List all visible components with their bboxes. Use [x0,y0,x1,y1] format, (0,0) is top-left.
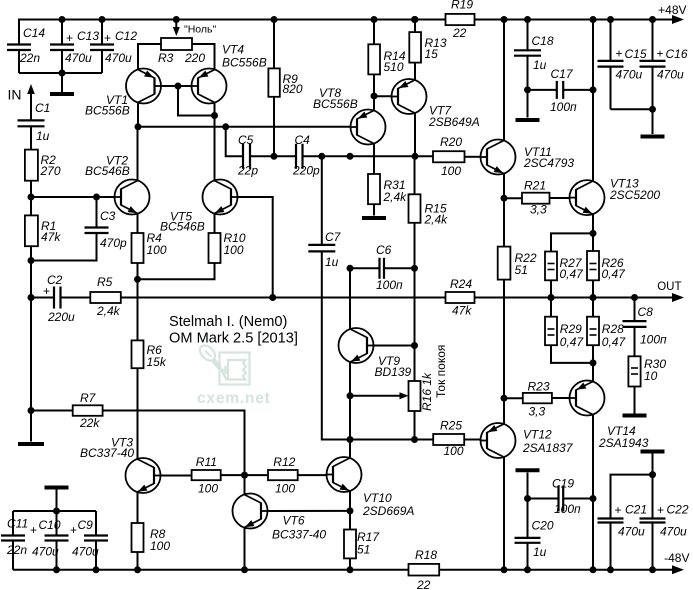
transistor VT2 [115,180,150,215]
+48V terminal arrow [672,15,684,24]
resistor R30 [628,356,640,386]
junction VT9 base [411,342,418,349]
resistor R31 [368,174,380,204]
svg-text:R29: R29 [560,322,582,336]
resistor R28 [592,298,594,317]
svg-text:R19: R19 [451,0,473,12]
capacitor C22 [652,475,654,519]
svg-text:C6: C6 [376,243,392,257]
svg-text:0,47: 0,47 [602,267,627,281]
capacitor C4 [295,144,297,169]
svg-text:470u: 470u [660,525,687,539]
svg-text:100п: 100п [550,100,577,114]
svg-text:C3: C3 [100,209,116,223]
svg-text:1u: 1u [533,545,547,559]
svg-text:C19: C19 [552,477,574,491]
ground bottom bank [56,489,58,511]
svg-text:-48V: -48V [664,551,689,565]
junction VT1-VT2 collectors [135,123,142,130]
resistor R27 [545,252,557,281]
transistor VT7 [392,79,427,114]
resistor R29 [550,298,552,317]
svg-text:C7: C7 [325,230,342,244]
svg-text:C11: C11 [7,517,28,531]
wire R26 bottom to OUT [592,280,594,297]
svg-text:C2: C2 [47,273,63,287]
wire VT10 collector [349,440,351,458]
resistor R13 [412,16,419,23]
wire VT3 emitter to R8 [137,493,139,524]
junction VT12 emitter node [501,395,508,402]
wire VT8 emitter up [373,96,375,111]
svg-text:BC556B: BC556B [222,56,267,70]
junction R27 bottom [548,294,555,301]
junction C7 top [318,153,325,160]
junction VT4 collector [211,112,218,119]
svg-text:+: + [104,31,111,45]
svg-text:R20: R20 [440,135,462,149]
resistor R5 [61,297,91,299]
junction node A [28,194,35,201]
wire R21 to VT13 base [550,197,570,199]
svg-text:R5: R5 [97,275,113,289]
wire C18 bottom [527,56,529,90]
capacitor C11 [12,511,14,536]
capacitor C14 [18,20,20,45]
wire VT6 emitter to rail [244,528,246,570]
wire VT13 collector to rail [592,20,594,181]
svg-text:100: 100 [147,243,167,257]
svg-text:+: + [657,503,664,517]
svg-text:470p: 470p [100,236,127,250]
transistor VT9 [339,328,374,363]
svg-text:470u: 470u [616,68,643,82]
svg-text:2SD669A: 2SD669A [362,504,414,518]
svg-text:R18: R18 [415,548,437,562]
svg-text:R25: R25 [440,419,462,433]
resistor R26 [587,251,599,280]
capacitor C18 [524,16,531,23]
svg-text:100: 100 [150,539,170,553]
junction C6 left [347,265,354,272]
wire feedback line to R24 [121,297,446,299]
wire C4 to VAS line [303,155,434,157]
wire cap bank bottom [19,72,102,74]
resistor R21 [504,197,522,199]
svg-text:VT12: VT12 [523,428,552,442]
svg-text:C22: C22 [667,503,689,517]
junction VT8 emitter / VT7 base [371,93,378,100]
wire VT14 collector to rail [592,415,594,570]
svg-text:1u: 1u [36,129,50,143]
junction VT9 collector line [347,153,354,160]
wire down to C2 node [30,261,32,298]
capacitor C6 [378,258,380,279]
svg-text:22: 22 [452,26,467,40]
wire bottom bank top [13,510,96,512]
svg-text:+48V: +48V [658,3,686,17]
ground top-left bank [61,73,63,92]
capacitor C13 [61,20,63,45]
svg-text:C13: C13 [77,29,99,43]
wire VT11 emitter down [503,174,505,199]
capacitor C9 [95,511,97,536]
svg-text:C18: C18 [532,34,554,48]
wire emitter node left [551,233,593,251]
transistor VT12 [481,423,516,458]
svg-text:100п: 100п [376,278,403,292]
junction C10 top [53,508,60,515]
wire VT7 base [374,95,392,97]
wire tail to R6 [137,279,139,340]
wire VT6 base [268,510,351,512]
svg-text:C15: C15 [625,47,647,61]
svg-text:+: + [615,503,622,517]
svg-text:2,4k: 2,4k [383,190,408,204]
wire R12 to VT10 base [298,474,327,476]
junction VT14 collector rail [590,566,597,573]
svg-text:100п: 100п [640,333,667,347]
wire C19 right [563,498,593,500]
wire VT9 base [374,345,415,347]
trimmer R3 Noll [173,16,180,23]
svg-text:0,47: 0,47 [560,267,585,281]
wire mirror output to VT8 base [138,126,351,128]
resistor R20 [433,151,465,162]
ground R30 [634,387,636,414]
junction VT14 emitter node [590,359,597,366]
transistor VT11 [481,140,516,175]
svg-text:2SC4793: 2SC4793 [523,156,574,170]
svg-text:470u: 470u [618,525,645,539]
junction R19 right [501,16,508,23]
wire VT2 collector up [137,127,139,181]
svg-text:470u: 470u [72,545,99,559]
capacitor C3 [96,197,98,228]
resistor R25 [433,434,464,445]
wire VT12 emitter up [503,398,505,424]
capacitor C15 [607,16,614,23]
wire R3 right to VT4 emitter [192,44,215,70]
junction R19 left [411,16,418,23]
ground R31 [373,204,375,215]
svg-text:1u: 1u [325,255,339,269]
wire R2 to node A [30,181,32,197]
wire C5 tap down [226,127,243,157]
resistor R12 [268,470,298,480]
junction R15 top / VT7 collector [412,153,419,160]
junction bases [175,83,182,90]
capacitor C1 [18,119,45,121]
svg-text:C5: C5 [238,133,254,147]
capacitor C10 [56,511,58,536]
svg-text:220: 220 [184,51,205,65]
-48V terminal arrow [672,565,684,574]
wire VT7 collector down [414,113,416,156]
wire R7 to VT6 collector node [103,411,245,476]
svg-text:R21: R21 [524,179,546,193]
svg-text:R24: R24 [450,277,472,291]
svg-text:C17: C17 [551,67,574,81]
svg-text:C10: C10 [39,518,61,532]
svg-text:C12: C12 [115,29,137,43]
capacitor C17 [528,89,557,91]
wire C6 right [384,267,415,269]
svg-text:2SA1943: 2SA1943 [598,436,649,450]
resistor R24 [446,292,475,303]
wire R10 bottom to tail [138,263,215,279]
wire R20 to VT11 base [465,156,481,158]
wire VT9 emitter to pre-driver node [349,396,351,440]
wire VT11 collector to rail [503,20,505,141]
resistor R10 [214,214,216,234]
wire bases to VT4 collector [178,86,215,116]
ground C21/C22 node [641,450,665,454]
svg-text:R3: R3 [158,51,174,65]
wire R15/R16 column [414,268,416,345]
capacitor C16 [649,16,656,23]
svg-text:15k: 15k [147,355,167,369]
svg-text:47k: 47k [452,304,472,318]
wire VT3 base to R11 [161,475,192,477]
svg-text:BC546B: BC546B [160,220,205,234]
svg-text:470u: 470u [657,68,684,82]
svg-text:100: 100 [444,444,464,458]
wire R13 to VT7 emitter [414,63,416,80]
junction driver bias node [241,472,248,479]
wire R22 to VT12 emitter [503,280,505,399]
svg-text:22n: 22n [6,543,27,557]
label Tok pokoya [434,345,448,398]
svg-text:C9: C9 [78,518,94,532]
wire R11 to node [221,474,268,476]
svg-text:100: 100 [275,482,295,496]
transistor VT1 [126,69,161,104]
junction tail [134,276,141,283]
wire driver line [350,439,433,441]
resistor R7 [31,410,73,412]
svg-text:+: + [70,523,77,537]
svg-text:51: 51 [357,543,370,557]
resistor R17 [349,511,351,530]
junction C2 node [28,294,35,301]
svg-text:R7: R7 [80,391,97,405]
trimmer R16 [350,395,405,397]
junction R26 bottom [590,294,597,301]
svg-text:C20: C20 [532,519,554,533]
transistor VT14 [570,381,605,416]
svg-text:1u: 1u [533,58,547,72]
junction C20/C19 node [524,495,531,502]
wire C21 top [611,475,653,519]
resistor R8 [132,523,144,552]
junction C22 rail [649,566,656,573]
junction C9 bottom rail [93,566,100,573]
svg-text:cxem.net: cxem.net [197,390,271,407]
svg-text:22k: 22k [79,416,100,430]
wire VT6 collector up [244,475,246,494]
wire VT5 base [238,197,273,298]
wire R25 to VT12 base [464,439,480,441]
svg-text:Ток покоя: Ток покоя [434,345,448,398]
resistor R19 [446,14,475,25]
svg-text:47k: 47k [41,230,61,244]
wire output line [475,297,675,299]
ground input divider [30,411,32,442]
junction R1 bottom [28,257,35,264]
wire C19 left [528,498,559,500]
junction VT12 collector rail [501,566,508,573]
ground C15/C16 [652,109,654,134]
wire VT13 emitter down [592,215,594,234]
wire VT10 emitter down [349,492,351,511]
junction C17 right [590,86,597,93]
junction R7 node [28,407,35,414]
wire R3 left to VT1 emitter [138,44,161,70]
svg-text:C16: C16 [666,47,688,61]
svg-text:3,3: 3,3 [530,203,547,217]
wire VT2 base [31,196,115,198]
ground C20 node [527,473,529,499]
svg-text:100: 100 [198,482,218,496]
junction C19 right [590,495,597,502]
svg-text:15: 15 [425,47,439,61]
svg-text:2SC5200: 2SC5200 [609,188,660,202]
junction C5 tap [222,123,229,130]
junction C16 bottom [649,106,656,113]
svg-text:470u: 470u [105,51,132,65]
junction R16 bottom [411,436,418,443]
svg-text:0,47: 0,47 [602,335,627,349]
svg-text:+: + [616,47,623,61]
svg-text:470u: 470u [65,51,92,65]
svg-text:2,4k: 2,4k [96,304,121,318]
capacitor C2 [31,297,54,299]
resistor R4 [137,214,139,234]
svg-text:BC546B: BC546B [85,164,130,178]
svg-text:100п: 100п [554,502,581,516]
svg-text:220u: 220u [47,310,75,324]
svg-text:820: 820 [283,82,303,96]
svg-text:R12: R12 [273,455,295,469]
transistor VT5 [203,180,238,215]
junction C21 rail [607,566,614,573]
wire R29/R28 bottoms to VT14 emitter [551,345,593,363]
wire C17 right [563,89,593,91]
resistor R2 [25,150,38,181]
transistor VT3 [126,458,161,493]
capacitor C21 [598,517,624,519]
svg-text:51: 51 [515,263,528,277]
wire VT14 emitter [592,363,594,382]
svg-text:510: 510 [384,60,404,74]
svg-text:22p: 22p [237,164,258,178]
capacitor C7 [321,156,323,245]
svg-text:C4: C4 [295,133,311,147]
junction C6 right [411,265,418,272]
svg-text:OM Mark 2.5 [2013]: OM Mark 2.5 [2013] [169,331,298,347]
svg-text:2SB649A: 2SB649A [428,115,480,129]
capacitor C20 [527,499,529,538]
transistor VT6 [233,494,268,529]
resistor R9 [271,16,278,23]
wire C8 to R30 [634,327,636,356]
svg-text:2SA1837: 2SA1837 [522,441,574,455]
svg-text:"Ноль": "Ноль" [184,24,217,36]
svg-text:BD139: BD139 [375,365,412,379]
ground C18 [527,90,529,118]
svg-text:10: 10 [644,369,658,383]
OUT terminal arrow [672,293,684,302]
wire VT8 collector to R31 [373,144,375,175]
svg-text:BC556B: BC556B [313,97,358,111]
junction C18/C17 node [524,86,531,93]
svg-text:22: 22 [416,578,431,590]
junction pre-driver node [347,436,354,443]
wire R6 to VT3 collector [137,368,139,458]
wire VT4 collector to VT5 collector [214,103,216,181]
transistor VT13 [570,180,605,215]
resistor R23 [504,397,523,399]
junction VT10 emitter / VT6 base [347,507,354,514]
svg-text:R23: R23 [528,380,550,394]
svg-text:VT6: VT6 [283,514,305,528]
capacitor C19 [557,486,559,512]
svg-text:R11: R11 [196,455,217,469]
capacitor C8 [634,298,636,322]
wire C7 bottom to pre-driver node [322,251,350,439]
junction C10 bottom rail [53,566,60,573]
svg-text:+: + [657,47,664,61]
svg-text:OUT: OUT [657,281,681,293]
svg-text:Stelmah I. (Nem0): Stelmah I. (Nem0) [169,314,287,330]
svg-text:IN: IN [8,87,22,103]
svg-text:0,47: 0,47 [560,335,585,349]
wire C2 node to R7 [30,298,32,411]
junction R8 rail [134,566,141,573]
wire -48V rail left section [13,569,409,571]
svg-text:VT4: VT4 [222,43,244,57]
junction VT11 emitter [501,195,508,202]
wire VT1 collector down [137,103,139,127]
junction VT13 emitter node [590,230,597,237]
junction VT5 base tap [269,294,276,301]
svg-text:R16 1k: R16 1k [420,372,434,411]
wire +48V rail right section [475,19,675,21]
junction R17 rail [347,566,354,573]
junction VT13 collector rail [590,16,597,23]
junction C13 bottom [59,70,66,77]
svg-text:BC337-40: BC337-40 [80,446,134,460]
wire R17 to rail [349,558,351,569]
resistor R6 [132,340,144,368]
junction VT6 emitter rail [241,566,248,573]
wire +48V rail left section [19,20,446,45]
svg-text:100: 100 [224,243,244,257]
svg-text:100: 100 [441,164,461,178]
junction C20 rail [524,566,531,573]
wire C5 to C4 node [250,155,296,157]
capacitor C5 [242,144,244,169]
junction C3 top [93,194,100,201]
svg-text:22n: 22n [19,51,40,65]
svg-text:C14: C14 [23,26,45,40]
svg-text:+: + [30,523,37,537]
svg-text:C1: C1 [35,101,50,115]
svg-text:+: + [66,31,73,45]
wire C15/C16 bottoms [611,108,653,110]
transistor VT10 [327,457,362,492]
